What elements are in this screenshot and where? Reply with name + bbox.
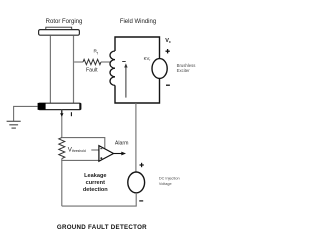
rotor top cap (39, 30, 80, 36)
svg-text:DC Injection: DC Injection (159, 176, 180, 180)
ground (7, 121, 21, 128)
wire rotor shaft down (61, 110, 63, 138)
alarm output arrow (114, 153, 122, 155)
svg-text:Fault: Fault (86, 68, 98, 74)
rotor body left edge (49, 35, 51, 103)
rotor body right edge (73, 35, 75, 103)
source DC injection voltage (128, 172, 145, 193)
comparator plus input mark (100, 157, 102, 159)
svg-text:GROUND FAULT DETECTOR: GROUND FAULT DETECTOR (57, 224, 147, 231)
polarity dash near coil (122, 61, 126, 63)
svg-text:Voltage: Voltage (159, 182, 172, 186)
label I (70, 112, 72, 116)
wire label to comparator input (91, 149, 99, 151)
comparator minus input mark (100, 148, 102, 150)
field winding loop wires (115, 37, 160, 103)
rotor top cap lip (46, 27, 72, 30)
svg-text:current: current (86, 180, 105, 186)
ground brush contact (38, 103, 46, 110)
svg-text:Exciter: Exciter (177, 68, 191, 73)
wire field winding to DC injection source (135, 103, 137, 172)
svg-text:detection: detection (83, 187, 108, 193)
wire resistor bottom down to bottom rail (61, 160, 63, 206)
svg-text:Field Winding: Field Winding (120, 19, 156, 25)
resistor Rf fault (83, 59, 101, 64)
source brushless exciter (152, 59, 167, 79)
wire junction to comparator top input (62, 138, 105, 149)
wire fault resistor to field winding (101, 61, 111, 63)
wire DC injection to bottom rail (62, 193, 136, 206)
plus sign DC injection (140, 163, 144, 167)
wire rotor to fault resistor (74, 61, 83, 63)
svg-text:Rotor Forging: Rotor Forging (46, 19, 83, 25)
wire resistor bottom to comparator lower input (62, 159, 99, 161)
svg-text:Alarm: Alarm (115, 141, 129, 147)
minus sign exciter (166, 84, 170, 86)
op-amp comparator (99, 146, 114, 162)
svg-text:Leakage: Leakage (84, 173, 106, 179)
current arrow in winding (125, 66, 127, 98)
minus sign DC injection (139, 200, 143, 202)
rotor bottom cap (39, 103, 81, 109)
current arrow I (61, 110, 63, 113)
wire brush to ground (14, 106, 38, 121)
inductor field winding coil (110, 51, 115, 85)
resistor V threshold (59, 138, 65, 159)
rotor bottom cap right end bar (79, 103, 81, 110)
plus sign exciter (166, 49, 170, 53)
